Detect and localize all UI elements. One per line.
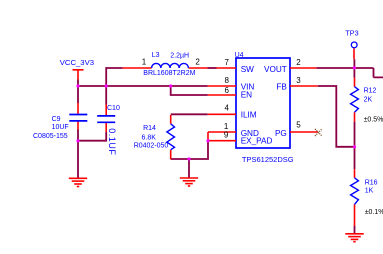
- wire C10 top: [105, 86, 107, 105]
- resistor R14: [134, 115, 175, 159]
- wire C9 top: [77, 86, 79, 103]
- wire VCC stem: [77, 80, 79, 87]
- svg-text:3: 3: [296, 76, 301, 85]
- svg-text:R16: R16: [365, 180, 378, 187]
- U4 pin 2 VOUT: [290, 58, 317, 68]
- svg-text:R14: R14: [143, 125, 156, 132]
- IC U4: [235, 52, 294, 164]
- svg-text:C0805-155: C0805-155: [33, 133, 68, 140]
- wire ILIM net: [171, 113, 208, 115]
- wire VIN net horizontal: [78, 85, 208, 87]
- junction mid ground: [187, 157, 190, 160]
- svg-text:SW: SW: [241, 65, 254, 74]
- wire left ground stem: [77, 141, 79, 178]
- svg-text:EN: EN: [241, 91, 252, 100]
- wire R12 bottom to FB junction: [354, 122, 356, 147]
- U4 pin 1 GND: [208, 122, 236, 141]
- svg-text:2.2µH: 2.2µH: [170, 52, 189, 59]
- U4 pin 9 EX_PAD: [208, 130, 236, 140]
- wire GND/EX_PAD to bottom rail: [171, 141, 208, 159]
- svg-text:U4: U4: [235, 52, 244, 59]
- resistor R16: [351, 169, 383, 226]
- U4 pin 5 PG: [290, 121, 318, 132]
- wire FB net: [318, 86, 355, 147]
- svg-text:2: 2: [296, 58, 301, 67]
- svg-text:BRL1608T2R2M: BRL1608T2R2M: [143, 70, 195, 77]
- svg-text:PG: PG: [275, 129, 287, 138]
- svg-text:2: 2: [195, 58, 200, 67]
- wire C9 bottom: [77, 130, 79, 141]
- U4 pin 7 SW: [217, 58, 237, 68]
- svg-text:9: 9: [224, 130, 229, 139]
- svg-text:C10: C10: [107, 105, 120, 112]
- svg-text:±0.1%: ±0.1%: [365, 209, 383, 216]
- wire TP3 column: [353, 59, 355, 78]
- junction EX_PAD: [206, 139, 209, 142]
- U4 pin 4 ILIM: [208, 103, 236, 114]
- power symbol VCC_3V3: [60, 58, 94, 79]
- junction FB/R16: [353, 145, 356, 148]
- svg-text:5: 5: [296, 121, 301, 130]
- svg-text:FB: FB: [276, 83, 287, 92]
- svg-text:4: 4: [225, 103, 230, 112]
- wire mid ground stem: [188, 159, 190, 178]
- resistor R12: [351, 78, 383, 124]
- wire VOUT to TP3 junction: [317, 68, 383, 77]
- U4 pin 3 FB: [290, 76, 318, 86]
- wire L3 to U4 pin7: [207, 67, 216, 69]
- svg-text:TP3: TP3: [345, 28, 358, 37]
- svg-text:VOUT: VOUT: [264, 65, 287, 74]
- svg-text:TPS61252DSG: TPS61252DSG: [242, 155, 294, 164]
- wire EN branch: [171, 86, 208, 95]
- wire R16 to ground: [354, 226, 356, 234]
- svg-text:1: 1: [142, 58, 147, 67]
- svg-text:±0.5%: ±0.5%: [364, 116, 383, 123]
- junction at C10 column: [105, 84, 108, 87]
- svg-text:VCC_3V3: VCC_3V3: [60, 58, 94, 67]
- wire up to L3: [106, 68, 123, 86]
- no-connect X on PG: [315, 129, 322, 136]
- ground (left): [69, 178, 87, 186]
- svg-text:8: 8: [225, 76, 230, 85]
- svg-text:EX_PAD: EX_PAD: [241, 136, 273, 145]
- U4 pin 8 VIN: [208, 76, 236, 86]
- svg-text:1K: 1K: [365, 187, 374, 194]
- svg-text:0.1UF: 0.1UF: [107, 128, 117, 155]
- capacitor C9: [33, 103, 87, 140]
- wire FB junction to R16: [354, 147, 356, 170]
- ground (middle): [180, 178, 198, 186]
- junction at VCC column: [76, 84, 79, 87]
- test point TP3: [345, 28, 358, 59]
- svg-text:6: 6: [225, 86, 230, 95]
- junction C9 bottom: [76, 139, 79, 142]
- svg-text:6.8K: 6.8K: [142, 134, 157, 141]
- capacitor C10: [97, 105, 120, 156]
- svg-text:R12: R12: [364, 87, 377, 94]
- svg-text:ILIM: ILIM: [241, 110, 257, 119]
- svg-text:L3: L3: [152, 52, 160, 59]
- svg-text:C9: C9: [52, 116, 61, 123]
- junction TP3: [353, 66, 356, 69]
- U4 pin 6 EN: [208, 86, 236, 95]
- inductor L3: [123, 52, 208, 77]
- junction EN branch: [169, 84, 172, 87]
- svg-text:2K: 2K: [364, 97, 373, 104]
- svg-text:10UF: 10UF: [52, 124, 69, 131]
- wire C10 bottom: [78, 132, 106, 141]
- ground (right): [345, 234, 363, 242]
- svg-text:R0402-050: R0402-050: [134, 142, 169, 149]
- svg-text:7: 7: [225, 58, 230, 67]
